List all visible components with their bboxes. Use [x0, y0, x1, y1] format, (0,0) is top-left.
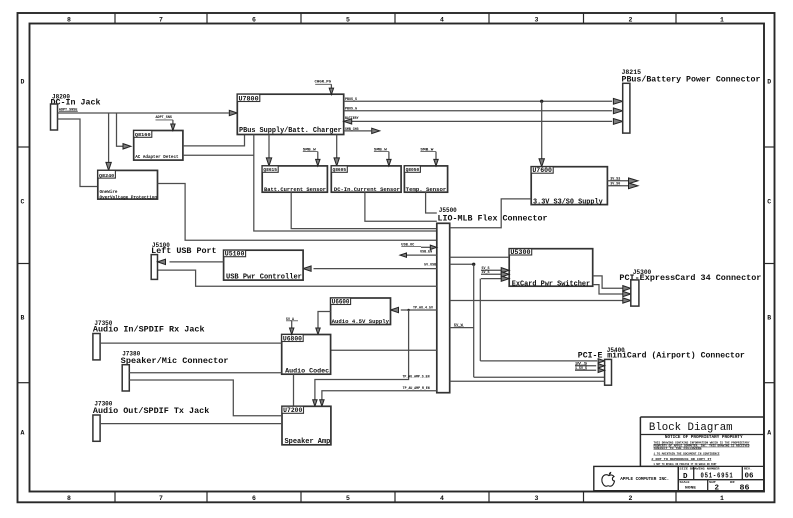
svg-text:2: 2 [715, 484, 720, 492]
svg-text:J5500: J5500 [439, 207, 457, 214]
svg-text:Audio 4.5V Supply: Audio 4.5V Supply [332, 318, 390, 325]
svg-text:LIO-MLB Flex Connector: LIO-MLB Flex Connector [438, 213, 548, 223]
svg-text:ADPT_SNS: ADPT_SNS [156, 116, 173, 120]
svg-text:5V_USB: 5V_USB [424, 262, 436, 266]
svg-text:Temp. Sensor: Temp. Sensor [406, 186, 447, 193]
svg-text:A: A [21, 430, 25, 437]
svg-text:06: 06 [745, 473, 754, 481]
svg-text:PBUS_G: PBUS_G [345, 107, 357, 111]
svg-text:OF: OF [730, 481, 736, 484]
svg-text:U6600: U6600 [332, 298, 350, 305]
svg-text:7: 7 [159, 495, 163, 502]
svg-text:D: D [683, 473, 688, 481]
svg-text:D: D [767, 79, 771, 86]
svg-text:SMB_CHG: SMB_CHG [345, 127, 359, 131]
svg-text:2: 2 [629, 16, 633, 23]
svg-text:B: B [21, 315, 25, 322]
svg-text:TP_AU_AMP_S_EN: TP_AU_AMP_S_EN [403, 375, 430, 379]
svg-text:U6800: U6800 [283, 335, 302, 342]
svg-text:Q8605: Q8605 [333, 167, 347, 173]
svg-text:Q8240: Q8240 [99, 173, 114, 179]
svg-text:SIZE DRAWING NUMBER: SIZE DRAWING NUMBER [680, 467, 721, 470]
svg-text:A: A [767, 430, 771, 437]
svg-text:PBUS_S: PBUS_S [345, 97, 357, 101]
svg-text:CHGR_PG: CHGR_PG [315, 80, 332, 84]
svg-text:86: 86 [740, 484, 751, 492]
svg-text:PBus/Battery Power Connector: PBus/Battery Power Connector [622, 75, 761, 85]
svg-text:3: 3 [535, 16, 539, 23]
svg-text:NONE: NONE [685, 487, 696, 491]
svg-text:ADPT_SNSE: ADPT_SNSE [59, 108, 78, 112]
svg-text:6: 6 [252, 16, 256, 23]
svg-text:5: 5 [346, 495, 350, 502]
svg-text:SCALE: SCALE [680, 481, 691, 484]
svg-text:USB Pwr Controller: USB Pwr Controller [226, 273, 302, 281]
svg-text:3.3V S3/S0 Supply: 3.3V S3/S0 Supply [533, 198, 603, 206]
svg-text:SMB_W: SMB_W [374, 149, 388, 153]
svg-text:Batt.Current Sensor: Batt.Current Sensor [264, 186, 326, 193]
svg-text:U7200: U7200 [283, 407, 302, 414]
svg-text:U5100: U5100 [225, 251, 245, 258]
svg-text:SMB_W: SMB_W [420, 149, 434, 153]
svg-text:7: 7 [159, 16, 163, 23]
svg-text:U7600: U7600 [532, 167, 552, 174]
svg-text:NOTICE OF PROPRIETARY PROPERTY: NOTICE OF PROPRIETARY PROPERTY [665, 436, 743, 440]
svg-text:Block Diagram: Block Diagram [649, 422, 733, 434]
svg-text:051-6951: 051-6951 [701, 473, 734, 481]
svg-text:1: 1 [720, 495, 724, 502]
svg-text:Left USB Port: Left USB Port [151, 246, 216, 256]
svg-text:SMB_W: SMB_W [303, 149, 317, 153]
svg-text:DC-In.Current Sensor: DC-In.Current Sensor [334, 186, 400, 193]
svg-text:B: B [767, 315, 771, 322]
svg-text:4: 4 [440, 16, 444, 23]
svg-text:U5300: U5300 [510, 249, 530, 256]
svg-text:PCI-E miniCard (Airport) Conne: PCI-E miniCard (Airport) Connector [578, 351, 745, 361]
svg-text:8: 8 [67, 495, 71, 502]
svg-text:TP_AU_AMP_R_EN: TP_AU_AMP_R_EN [403, 386, 430, 390]
svg-text:D: D [21, 79, 25, 86]
svg-text:2: 2 [629, 495, 633, 502]
svg-text:Audio Codec: Audio Codec [285, 368, 329, 376]
svg-text:Audio Out/SPDIF Tx Jack: Audio Out/SPDIF Tx Jack [93, 406, 209, 416]
svg-text:8: 8 [67, 16, 71, 23]
svg-text:5V_S: 5V_S [482, 266, 490, 270]
svg-text:3V_S: 3V_S [482, 270, 490, 274]
svg-text:4: 4 [440, 495, 444, 502]
svg-text:C: C [21, 199, 25, 206]
svg-text:USB_EN: USB_EN [420, 250, 432, 254]
svg-text:BATTERY: BATTERY [345, 116, 359, 120]
svg-text:TP_AU_4.5V: TP_AU_4.5V [413, 305, 433, 309]
svg-text:REV.: REV. [744, 467, 752, 470]
svg-text:APPLE COMPUTER INC.: APPLE COMPUTER INC. [620, 477, 669, 482]
svg-text:1: 1 [720, 16, 724, 23]
svg-text:PBus Supply/Batt. Charger: PBus Supply/Batt. Charger [239, 127, 342, 135]
svg-text:PCI-ExpressCard 34 Connector: PCI-ExpressCard 34 Connector [619, 273, 761, 283]
svg-text:ExCard Pwr Switcher: ExCard Pwr Switcher [512, 280, 591, 288]
svg-text:U7800: U7800 [239, 95, 259, 102]
svg-text:Q8615: Q8615 [263, 167, 277, 173]
svg-text:Audio In/SPDIF Rx Jack: Audio In/SPDIF Rx Jack [93, 325, 205, 335]
svg-text:5: 5 [346, 16, 350, 23]
svg-text:OverVoltage Protection: OverVoltage Protection [100, 195, 158, 200]
svg-text:C: C [767, 199, 771, 206]
svg-text:Speaker/Mic Connector: Speaker/Mic Connector [121, 356, 229, 366]
svg-text:Q8050: Q8050 [406, 167, 420, 173]
svg-text:6: 6 [252, 495, 256, 502]
svg-text:AC Adapter Detect: AC Adapter Detect [135, 155, 179, 160]
svg-text:5V_A: 5V_A [286, 317, 294, 321]
svg-text:Q8160: Q8160 [135, 132, 151, 138]
svg-text:Speaker Amp: Speaker Amp [285, 438, 331, 446]
svg-text:3: 3 [535, 495, 539, 502]
